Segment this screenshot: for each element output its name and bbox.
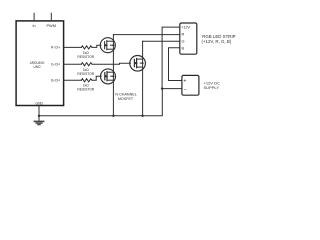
svg-text:RESISTOR: RESISTOR — [77, 88, 94, 92]
svg-text:RESISTOR: RESISTOR — [77, 55, 94, 59]
junction minus wire / rail — [161, 87, 163, 89]
wire supply minus — [162, 88, 182, 90]
wire R2 to gate of Q2 — [92, 62, 130, 65]
pin stub PWM — [50, 13, 52, 21]
svg-text:+12V: +12V — [181, 26, 190, 30]
svg-text:B-CH: B-CH — [51, 79, 60, 83]
svg-text:R: R — [182, 31, 185, 36]
transistor Q1 N-channel MOSFET (R) — [100, 38, 115, 53]
wire R1 to gate of Q1 — [92, 45, 101, 47]
svg-text:B: B — [182, 46, 185, 51]
svg-text:PWM: PWM — [46, 23, 56, 28]
RGB LED strip connector J1 — [180, 23, 197, 54]
svg-text:+: + — [183, 78, 186, 84]
transistor Q2 N-channel MOSFET (G) — [130, 56, 146, 72]
svg-text:UNO: UNO — [33, 65, 41, 69]
junction Q2 source / bus — [141, 115, 143, 117]
junction Q3 source / bus — [112, 115, 114, 117]
svg-text:(+12V, R, G, B): (+12V, R, G, B) — [202, 39, 232, 44]
wire G drain to strip G pin — [143, 40, 180, 42]
transistor Q3 N-channel MOSFET (B) — [101, 69, 116, 84]
svg-text:GND: GND — [36, 101, 44, 105]
svg-text:SUPPLY: SUPPLY — [204, 85, 220, 90]
wire B riser — [169, 48, 182, 81]
svg-text:N-CHANNEL: N-CHANNEL — [115, 92, 137, 96]
Arduino UNO box U1 — [16, 21, 64, 106]
svg-text:RESISTOR: RESISTOR — [77, 72, 94, 76]
+12V DC supply PS1 — [182, 75, 199, 95]
svg-text:G: G — [182, 38, 185, 43]
svg-text:−: − — [184, 87, 187, 93]
svg-text:In: In — [33, 24, 36, 28]
drain/source column of Q1,Q3 — [112, 35, 114, 116]
pin stub In — [33, 13, 35, 21]
svg-text:G-CH: G-CH — [51, 63, 60, 67]
wire R3 to gate of Q3 — [92, 76, 101, 80]
wire B-CH to resistor R3 — [64, 79, 82, 81]
svg-text:MOSFET: MOSFET — [118, 97, 134, 101]
ground symbol — [34, 121, 43, 124]
resistor R1 1k — [81, 46, 92, 49]
resistor R2 1k — [81, 63, 92, 66]
wire G-CH to resistor R2 — [64, 63, 82, 65]
labels — [30, 23, 236, 106]
ground bus wire — [39, 89, 162, 116]
GND stub below box — [38, 106, 40, 121]
junction GND stub / bus — [38, 115, 40, 117]
wire R drain to strip R pin — [113, 34, 179, 36]
resistor R3 1k — [81, 79, 92, 82]
svg-text:R-CH: R-CH — [51, 46, 60, 50]
wire R-CH to resistor R1 — [64, 46, 82, 48]
wire +12V rail — [162, 27, 180, 89]
drain/source column of Q2 — [142, 41, 144, 116]
